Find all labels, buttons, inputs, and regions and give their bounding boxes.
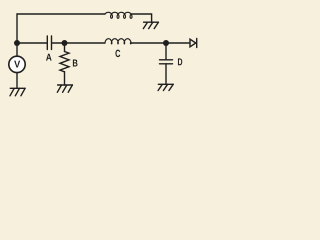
capacitor A right plate	[51, 36, 53, 50]
label V	[14, 61, 20, 68]
node junction left (source/top/cap A)	[14, 40, 20, 46]
wire node2 down to resistor B	[64, 43, 66, 52]
wire node3 down to capacitor D	[165, 43, 167, 59]
wire node3 to diode	[166, 42, 190, 44]
wire capacitor D to ground	[165, 64, 167, 85]
wire inductor C to node3	[131, 42, 167, 44]
node junction after capacitor A	[62, 40, 68, 46]
ground top-right (chassis)	[143, 22, 158, 28]
wire node2 to inductor C	[65, 42, 106, 44]
wire from node A-top up and across the top	[17, 14, 105, 43]
wire node1 down to source V	[16, 43, 18, 56]
ground under V (chassis)	[10, 88, 25, 96]
resistor B zigzag	[60, 52, 69, 72]
wire resistor B to ground	[64, 72, 66, 85]
label C	[115, 50, 120, 57]
diode triangle (anode)	[190, 39, 196, 47]
capacitor D top plate	[160, 59, 173, 61]
ground under B (chassis)	[57, 85, 72, 92]
label B	[73, 60, 78, 67]
capacitor D bottom plate	[160, 63, 173, 65]
diode cathode bar	[196, 39, 198, 48]
label A	[46, 54, 52, 61]
wire from top inductor to ground drop	[131, 14, 152, 22]
inductor top (RF choke)	[105, 12, 132, 18]
wire capacitor A to node2	[52, 42, 64, 44]
capacitor A left plate	[46, 36, 48, 50]
node junction before diode	[163, 40, 169, 46]
ground under D (chassis)	[158, 84, 173, 90]
voltage source V circle	[9, 56, 25, 72]
label D	[178, 58, 182, 65]
wire source V to ground	[16, 73, 18, 88]
inductor C	[105, 39, 131, 44]
wire node1 to capacitor A	[17, 42, 47, 44]
